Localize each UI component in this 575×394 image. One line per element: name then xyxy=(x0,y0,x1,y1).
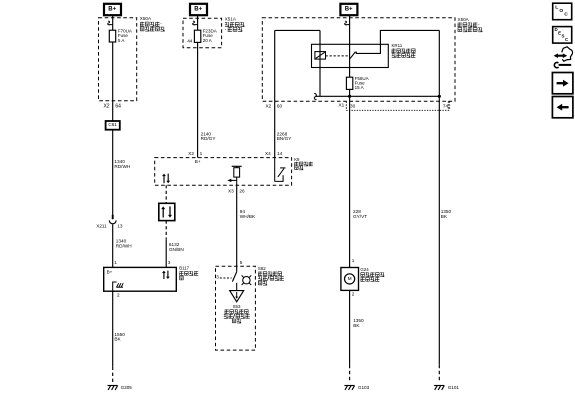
coil wire through relay xyxy=(319,30,321,96)
svg-text:2: 2 xyxy=(117,293,120,298)
button LOC xyxy=(553,3,572,20)
svg-text:S82: S82 xyxy=(258,266,266,271)
svg-text:30: 30 xyxy=(350,103,356,108)
button DESC xyxy=(553,27,572,43)
fuse F70UA 5A xyxy=(109,30,115,42)
power feed B+ (middle) xyxy=(190,4,207,15)
switch arm S53 xyxy=(232,272,236,282)
pull-up supply bar inside BCM xyxy=(232,165,242,167)
svg-text:1: 1 xyxy=(200,151,203,156)
indicator lamp in switch xyxy=(243,277,250,284)
svg-text:WH/BK: WH/BK xyxy=(240,214,256,219)
fuse block X51A dashed box xyxy=(183,18,222,47)
arrows inside data box xyxy=(162,209,164,218)
coil feed corner wire to pin 60 xyxy=(275,29,320,31)
svg-text:X2: X2 xyxy=(265,103,271,108)
ground G101 xyxy=(434,385,444,387)
pump motor circle xyxy=(345,274,355,284)
rain sensor B117 box xyxy=(104,267,177,291)
low-side driver inside BCM at X4 14 xyxy=(274,158,276,182)
terminal curl at rail end xyxy=(314,94,316,100)
svg-text:X3: X3 xyxy=(228,188,234,193)
svg-text:O: O xyxy=(559,8,563,14)
svg-text:14: 14 xyxy=(277,151,283,156)
svg-text:X1: X1 xyxy=(338,102,344,107)
terminal curl (right B+) xyxy=(345,21,350,25)
svg-text:X2: X2 xyxy=(103,104,109,110)
svg-text:M: M xyxy=(348,276,352,282)
body control module K9 dashed box xyxy=(155,158,292,186)
wire B117 pin2 to ground, circuit 1550 BK xyxy=(112,291,114,366)
wire B+ to fuse F23DA xyxy=(197,15,199,30)
svg-text:B117: B117 xyxy=(179,266,189,271)
dashed wire to G101 xyxy=(438,365,440,382)
terminal curl (left B+) xyxy=(108,21,113,25)
svg-text:1: 1 xyxy=(352,258,355,263)
wire pump to ground, circuit 1350 BK xyxy=(349,290,351,364)
washer symbol triangle xyxy=(230,291,244,302)
relay contact wire to output xyxy=(356,30,440,53)
svg-text:RD/WH: RD/WH xyxy=(116,243,132,248)
ground G305 xyxy=(108,385,118,387)
svg-text:B+: B+ xyxy=(108,7,116,13)
svg-text:3: 3 xyxy=(168,260,171,265)
svg-text:C61: C61 xyxy=(108,122,117,127)
svg-text:X2: X2 xyxy=(188,151,194,156)
svg-text:S53: S53 xyxy=(233,304,241,309)
power feed B+ (left) xyxy=(104,4,121,15)
junction dot at output/rail xyxy=(438,95,441,98)
svg-text:X51A: X51A xyxy=(225,17,237,22)
svg-text:26: 26 xyxy=(239,188,245,193)
connector X1 dotted outline xyxy=(346,109,449,111)
svg-text:B+: B+ xyxy=(107,269,113,274)
svg-text:20 A: 20 A xyxy=(203,38,212,43)
serial data arrows inside BCM xyxy=(163,176,165,184)
wire pin 64 to connector C61, circuit 1340 RD/WH xyxy=(112,101,114,121)
svg-text:L: L xyxy=(555,4,558,10)
coil to armature dashed link xyxy=(326,55,349,57)
svg-text:60: 60 xyxy=(277,103,283,108)
serial data link box xyxy=(159,203,175,220)
ground G103 xyxy=(344,385,354,387)
svg-text:5: 5 xyxy=(240,260,243,265)
wire BCM X3 to switch pin 5, circuit 94 WH/BK xyxy=(236,185,238,272)
internal ground of B117 xyxy=(113,282,117,291)
inline connector X211 pin 13 xyxy=(112,215,114,219)
svg-text:X50A: X50A xyxy=(458,17,470,22)
wire pin 74 to ground, circuit 1350 BK xyxy=(438,101,440,365)
svg-text:X4: X4 xyxy=(265,151,271,156)
svg-text:C: C xyxy=(564,12,568,18)
button back arrow xyxy=(552,97,573,118)
relay KR11 box xyxy=(312,44,389,67)
wire fuse to pin 64 xyxy=(112,42,114,101)
fuse F56UA 15A xyxy=(346,77,352,89)
dashed wire to G103 xyxy=(349,365,351,382)
svg-text:BK: BK xyxy=(441,214,448,219)
svg-text:B+: B+ xyxy=(195,159,201,164)
svg-text:G305: G305 xyxy=(121,385,133,390)
fuse block X50A right dashed box xyxy=(262,18,455,102)
dashed wire to G305 xyxy=(112,367,114,384)
wire B+ to fuse F70UA xyxy=(112,15,114,30)
svg-text:B+: B+ xyxy=(345,7,353,13)
svg-text:K9: K9 xyxy=(294,157,300,162)
bottom rail wire in fuse block xyxy=(315,95,439,97)
svg-text:B+: B+ xyxy=(194,7,202,13)
button next arrow xyxy=(552,73,573,94)
wire F23DA to BCM X2 pin 1, circuit 2140 RD/GY xyxy=(197,42,199,157)
svg-text:KR11: KR11 xyxy=(392,43,403,48)
dashed serial wire data box to solid xyxy=(165,221,167,240)
svg-text:G103: G103 xyxy=(358,385,370,390)
svg-text:3: 3 xyxy=(216,275,219,280)
connector C61 xyxy=(106,121,120,130)
svg-text:BK: BK xyxy=(114,337,121,342)
svg-text:BK: BK xyxy=(353,323,360,328)
svg-text:RD/WH: RD/WH xyxy=(114,164,130,169)
svg-text:1: 1 xyxy=(114,260,117,265)
svg-text:RD/GY: RD/GY xyxy=(201,136,217,141)
wire pin 60 to BCM X4, circuit 2268 BN/GY xyxy=(274,101,276,157)
sense resistor inside BCM xyxy=(234,168,240,177)
dashed serial wire BCM to data box xyxy=(165,185,167,203)
washer switch S53 dashed box xyxy=(216,266,256,350)
contact stub to washer symbol xyxy=(236,283,238,290)
wire B+ into fuse block and through relay to fuse xyxy=(349,15,351,77)
fuse F23DA 20A xyxy=(194,30,200,42)
wire X211 to B117 pin 1, circuit 1340 RD/WH xyxy=(112,224,114,267)
svg-text:74: 74 xyxy=(443,103,449,108)
relay output wire down to rail xyxy=(438,30,440,101)
svg-text:G24: G24 xyxy=(360,267,369,272)
fuse block X50A left dashed box xyxy=(99,18,137,101)
power feed B+ (right) xyxy=(340,4,357,15)
wire resistor to pin X3 xyxy=(236,177,238,185)
relay coil xyxy=(315,52,326,60)
svg-text:15 A: 15 A xyxy=(355,85,364,90)
svg-text:X211: X211 xyxy=(96,223,107,228)
wire to B117 pin 3, circuit 6132 GN/BN xyxy=(165,240,167,268)
svg-text:G101: G101 xyxy=(448,385,460,390)
terminal curl (middle B+) xyxy=(193,21,198,25)
svg-text:44: 44 xyxy=(187,38,193,43)
svg-text:2: 2 xyxy=(352,292,355,297)
washer pump G24 box xyxy=(341,268,359,291)
svg-text:X50A: X50A xyxy=(140,16,152,21)
svg-text:GY/VT: GY/VT xyxy=(353,214,367,219)
schematic navigation tool icon xyxy=(554,47,573,68)
svg-text:64: 64 xyxy=(115,104,121,110)
svg-text:BN/GY: BN/GY xyxy=(277,136,292,141)
relay armature xyxy=(350,52,355,58)
signal arrow inside BCM (to module) xyxy=(230,179,236,181)
wire C61 to X211, circuit 1340 RD/WH xyxy=(112,130,114,216)
serial data arrows inside B117 xyxy=(163,272,165,279)
wire fuse to pin 30 xyxy=(349,89,351,101)
svg-text:GN/BN: GN/BN xyxy=(169,247,184,252)
svg-text:13: 13 xyxy=(117,223,123,228)
junction dot fuse/rail xyxy=(348,95,351,98)
svg-text:5 A: 5 A xyxy=(118,38,125,43)
wire pin 30 to pump, circuit 228 GY/VT xyxy=(349,101,351,267)
